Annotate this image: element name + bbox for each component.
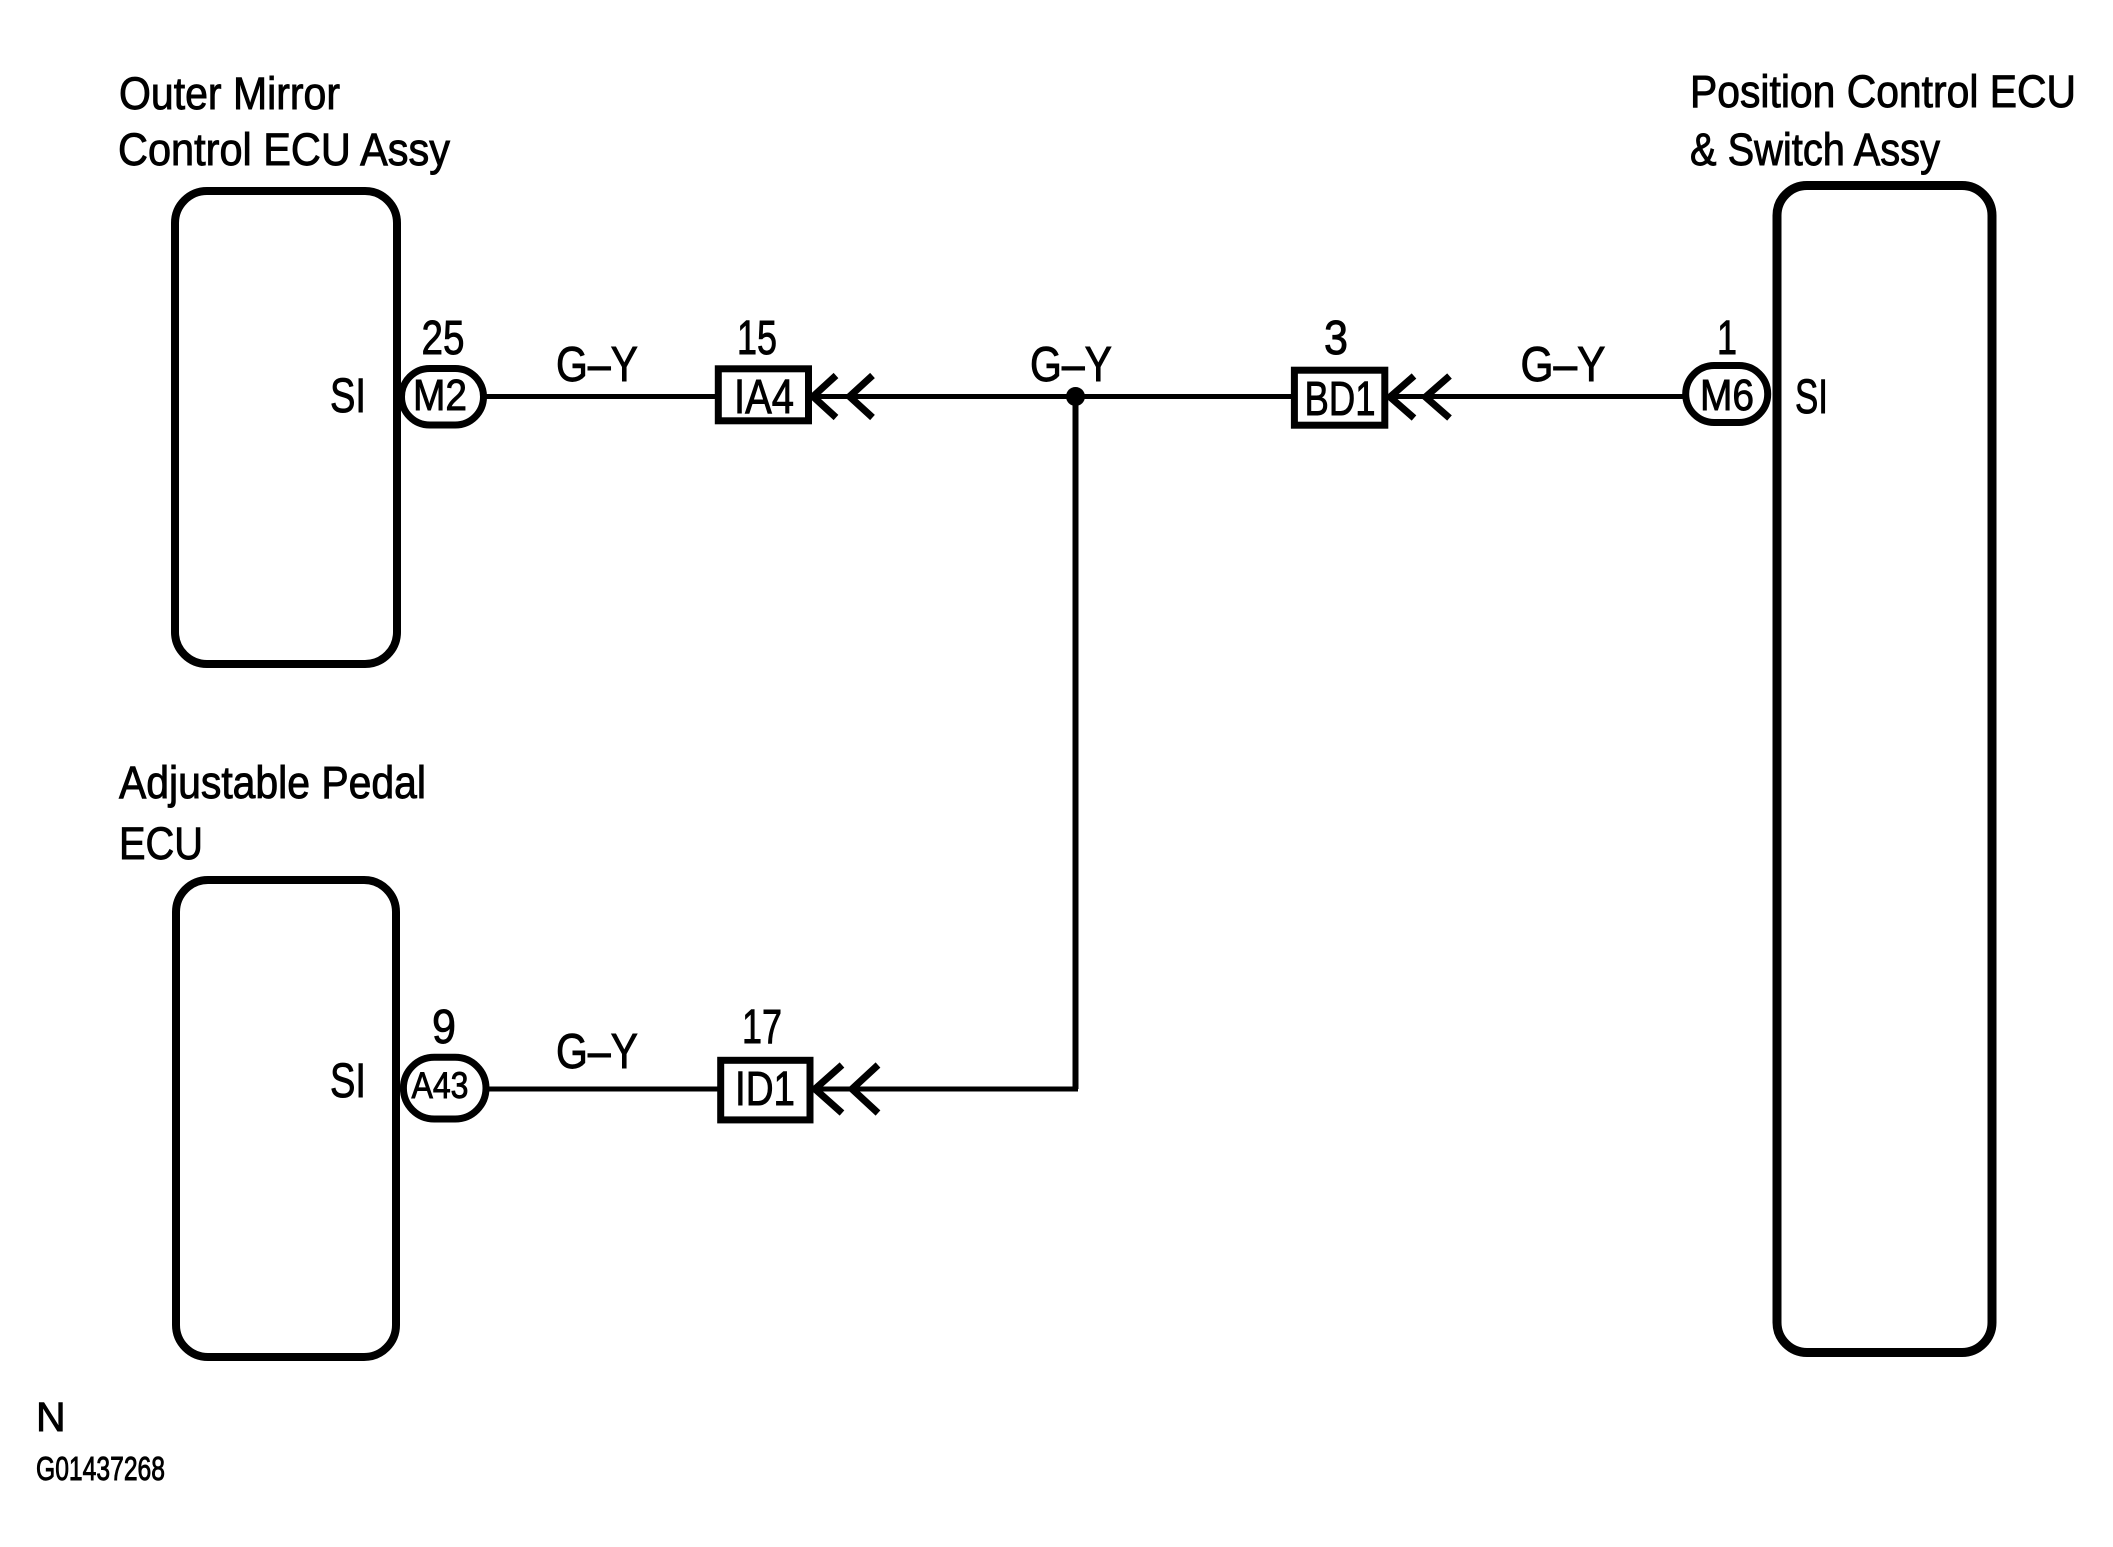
block: Position Control ECU & Switch Assy [1777, 186, 1992, 1353]
connector BD1 [1294, 370, 1384, 426]
svg-text:25: 25 [422, 312, 465, 365]
svg-text:17: 17 [742, 1001, 782, 1054]
svg-text:SI: SI [330, 1055, 366, 1108]
svg-text:G–Y: G–Y [556, 338, 638, 392]
svg-text:ECU: ECU [119, 818, 203, 869]
svg-text:G–Y: G–Y [1521, 338, 1606, 392]
note N [36, 1394, 66, 1440]
connector IA4 [718, 369, 808, 424]
wire label G-Y (left top) [556, 338, 638, 392]
svg-text:BD1: BD1 [1305, 373, 1376, 426]
svg-text:A43: A43 [412, 1065, 469, 1106]
wire M2 to IA4 (G-Y) [485, 394, 717, 399]
svg-text:N: N [36, 1394, 66, 1440]
arrow chevrons at IA4 [813, 376, 873, 418]
pin 1 of M6 [1717, 312, 1737, 365]
svg-text:Position Control ECU: Position Control ECU [1690, 66, 2076, 117]
connector M6 [1686, 366, 1768, 423]
pin 17 of ID1 [742, 1001, 782, 1054]
svg-text:1: 1 [1717, 312, 1737, 365]
wire label G-Y (right) [1521, 338, 1606, 392]
connector M2 [402, 369, 484, 426]
wire junction to BD1 [1076, 394, 1292, 399]
wire ID1 to vertical drop corner [814, 1087, 1078, 1092]
svg-text:G–Y: G–Y [556, 1025, 638, 1079]
svg-text:SI: SI [330, 370, 366, 423]
svg-text:ID1: ID1 [735, 1063, 795, 1116]
wire label G-Y (middle, node) [1030, 338, 1112, 392]
label: Position Control ECU & Switch Assy [1690, 66, 2076, 175]
wire IA4 to junction [812, 394, 1076, 399]
connector ID1 [721, 1060, 810, 1120]
label: Adjustable Pedal ECU [119, 757, 426, 869]
pin 9 of A43 [432, 1001, 456, 1054]
label: Outer Mirror Control ECU Assy [118, 68, 450, 175]
wire A43 to ID1 (G-Y) [487, 1087, 719, 1092]
svg-text:Outer Mirror: Outer Mirror [119, 68, 340, 119]
pin 3 of BD1 [1324, 312, 1348, 365]
wire label G-Y (bottom) [556, 1025, 638, 1079]
wire BD1 to M6 (G-Y) [1388, 394, 1684, 399]
svg-text:SI: SI [1795, 371, 1828, 424]
svg-text:G01437268: G01437268 [36, 1450, 165, 1487]
svg-text:Adjustable Pedal: Adjustable Pedal [119, 757, 426, 808]
svg-text:M6: M6 [1700, 371, 1754, 420]
svg-text:IA4: IA4 [734, 371, 794, 424]
block: Outer Mirror Control ECU Assy [175, 191, 397, 664]
wire vertical junction drop [1073, 397, 1079, 1090]
svg-text:3: 3 [1324, 312, 1348, 365]
arrow chevrons at BD1 [1390, 376, 1450, 418]
pin 25 of M2 [422, 312, 465, 365]
pin 15 of IA4 [737, 312, 777, 365]
junction node (G-Y net) [1066, 387, 1085, 406]
svg-text:15: 15 [737, 312, 777, 365]
svg-text:Control ECU Assy: Control ECU Assy [118, 124, 450, 175]
figure id G01437268 [36, 1450, 165, 1487]
svg-text:& Switch Assy: & Switch Assy [1690, 124, 1940, 175]
arrow chevrons at ID1 [815, 1065, 878, 1113]
svg-text:M2: M2 [413, 371, 467, 420]
svg-text:G–Y: G–Y [1030, 338, 1112, 392]
block: Adjustable Pedal ECU [176, 880, 396, 1357]
connector A43 [403, 1057, 486, 1119]
svg-text:9: 9 [432, 1001, 456, 1054]
